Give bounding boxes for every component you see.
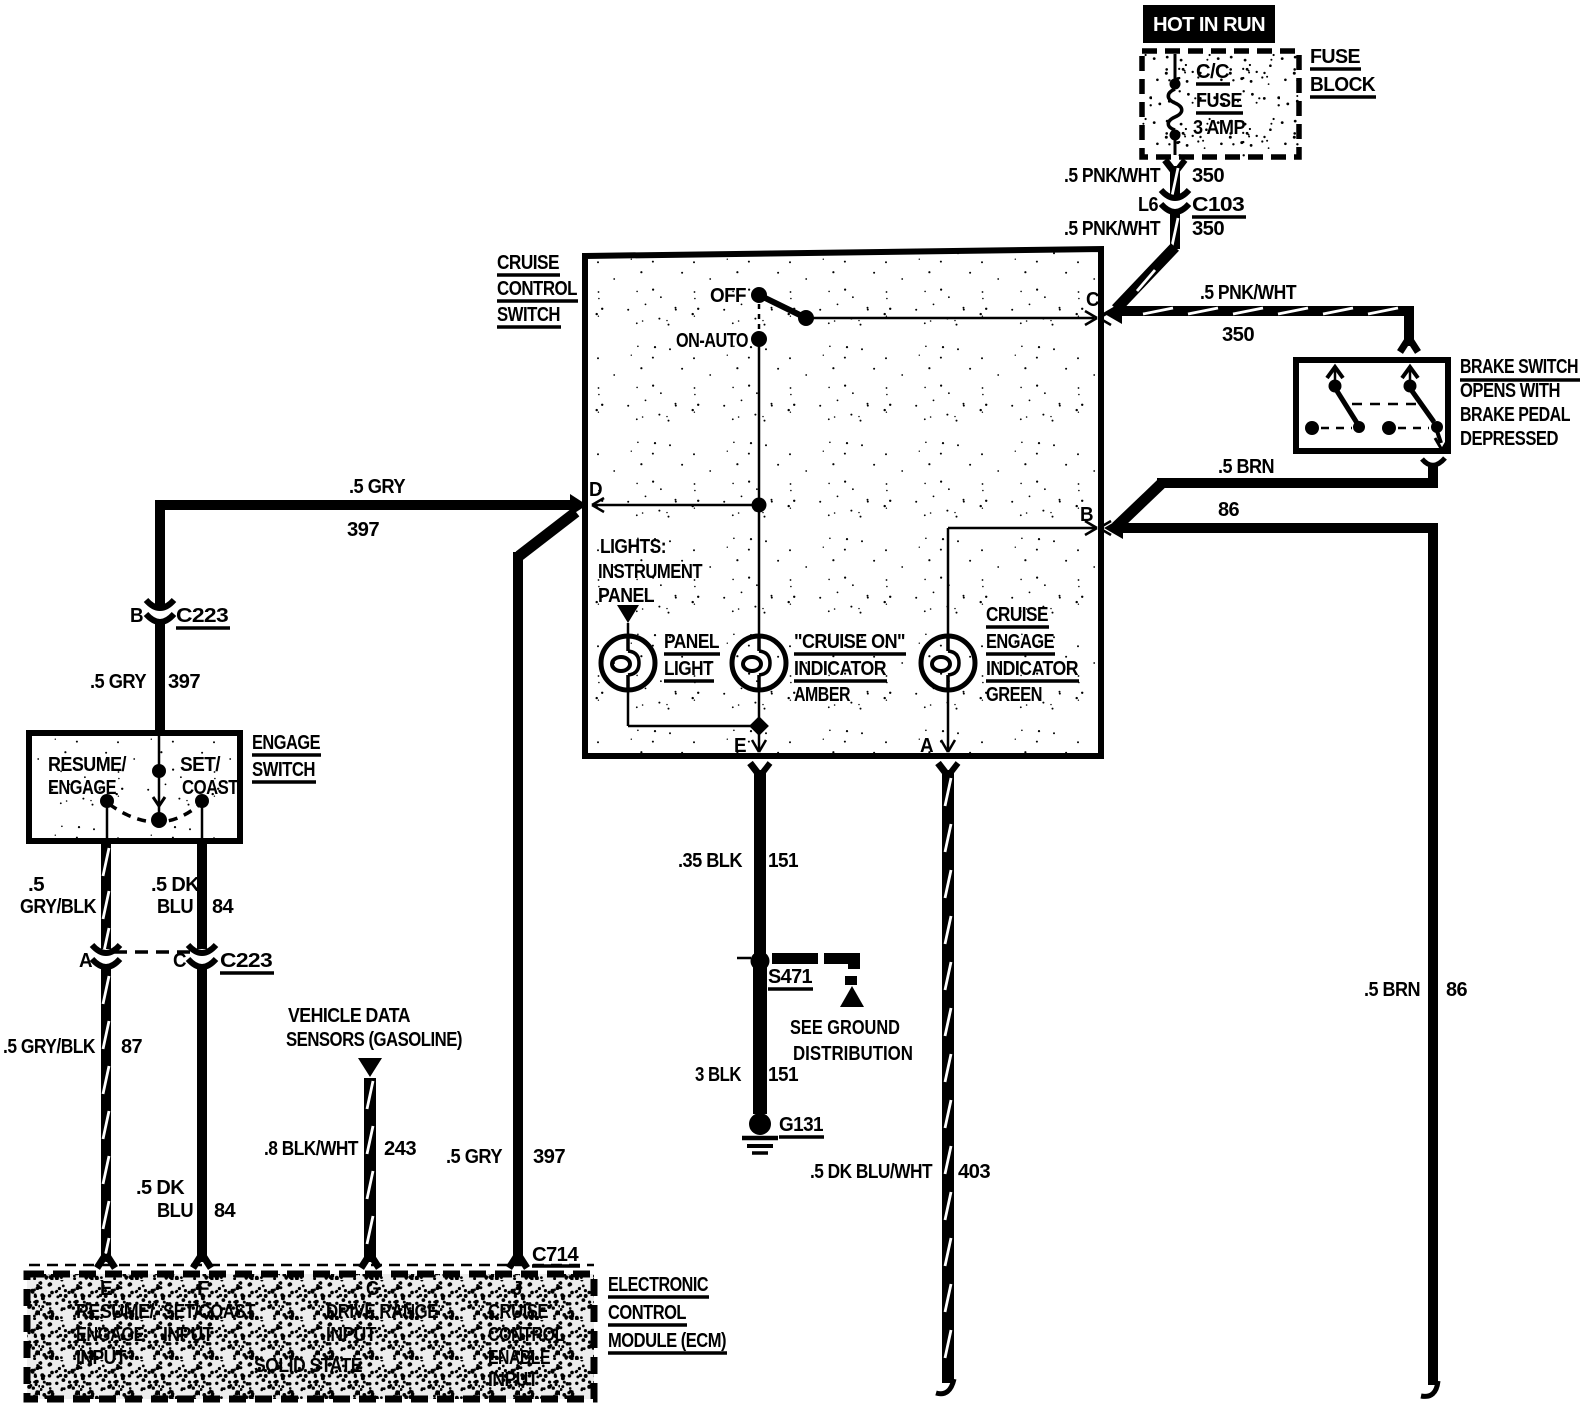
svg-text:PANEL: PANEL — [598, 585, 654, 607]
wire engage lamp to terminal A — [941, 690, 955, 752]
wire .5 DK BLU 84 C223 to ECM F — [193, 967, 211, 1268]
connector C103 terminal L6 — [1161, 190, 1189, 212]
label .5 DK BLU 84 (lower) — [136, 1177, 236, 1222]
wire ON-AUTO down to lamp — [758, 339, 761, 636]
svg-text:86: 86 — [1218, 499, 1239, 521]
svg-text:SET/: SET/ — [180, 754, 221, 776]
svg-text:ENGAGE: ENGAGE — [252, 732, 320, 754]
svg-text:BLOCK: BLOCK — [1310, 74, 1376, 96]
svg-text:D: D — [589, 479, 602, 501]
wire .8 BLK/WHT 243 to ECM G — [361, 1078, 379, 1268]
engage switch throw arc (dashed) — [109, 804, 200, 822]
feed triangle for panel light — [617, 605, 639, 636]
svg-text:350: 350 — [1192, 165, 1224, 187]
label 3 BLK 151 — [695, 1064, 798, 1086]
wire lever to terminal C — [806, 311, 1097, 325]
svg-text:RESUME/: RESUME/ — [48, 754, 127, 776]
svg-text:.8 BLK/WHT: .8 BLK/WHT — [264, 1138, 358, 1160]
label C C223 — [173, 950, 274, 973]
wire .5 BRN 86 brake switch to B and down right side — [1116, 458, 1445, 1396]
label C — [1086, 289, 1099, 311]
label B C223 — [130, 605, 230, 628]
terminal B arrow into cruise switch — [1099, 517, 1123, 539]
svg-text:C223: C223 — [176, 605, 229, 627]
terminal C arrow into cruise switch — [1099, 302, 1122, 325]
svg-text:151: 151 — [768, 850, 798, 872]
wire .5 PNK/WHT 350 C103 to cruise switch C — [1116, 213, 1180, 309]
svg-text:DISTRIBUTION: DISTRIBUTION — [793, 1043, 913, 1065]
engage switch common lever — [151, 736, 167, 828]
svg-text:C223: C223 — [220, 950, 273, 972]
wire .5 GRY fork at ECM J — [509, 1254, 527, 1268]
brake switch gang link (dashed) — [1352, 403, 1420, 406]
svg-text:OPENS WITH: OPENS WITH — [1460, 380, 1560, 402]
svg-text:C714: C714 — [532, 1244, 579, 1266]
wire .5 GRY/BLK 87 C223 to ECM E — [97, 967, 115, 1268]
node junction E — [749, 716, 769, 736]
svg-text:F: F — [197, 1278, 209, 1300]
engage switch contact SET/COAST — [195, 794, 209, 841]
svg-text:VEHICLE DATA: VEHICLE DATA — [288, 1005, 410, 1027]
ECM box — [27, 1274, 594, 1399]
svg-text:.5 PNK/WHT: .5 PNK/WHT — [1064, 165, 1160, 187]
svg-text:350: 350 — [1222, 324, 1254, 346]
svg-text:BLU: BLU — [157, 1200, 193, 1222]
svg-text:CRUISE: CRUISE — [497, 252, 559, 274]
svg-text:84: 84 — [212, 896, 234, 918]
label .5 PNK/WHT 350 (above C103) — [1064, 165, 1224, 187]
feed triangle vehicle data sensors — [358, 1058, 382, 1077]
wire .5 GRY/BLK engage switch to C223 A — [101, 841, 111, 956]
svg-text:ELECTRONIC: ELECTRONIC — [608, 1274, 708, 1296]
svg-text:87: 87 — [121, 1036, 142, 1058]
svg-text:86: 86 — [1446, 979, 1467, 1001]
wire panel lamp bottom to junction — [628, 690, 759, 726]
cruise control switch box — [585, 249, 1101, 756]
svg-text:397: 397 — [168, 671, 200, 693]
svg-text:CONTROL: CONTROL — [488, 1324, 564, 1346]
svg-text:G: G — [366, 1278, 379, 1300]
label .5 GRY/BLK (upper) — [20, 874, 97, 918]
brake switch contact 1 — [1305, 367, 1365, 435]
label A — [920, 735, 933, 757]
svg-text:E: E — [100, 1278, 112, 1300]
svg-text:3 AMP: 3 AMP — [1193, 117, 1245, 139]
svg-text:.5 DK BLU/WHT: .5 DK BLU/WHT — [810, 1161, 932, 1183]
lamp panel light — [601, 636, 655, 690]
svg-text:ENGAGE: ENGAGE — [48, 777, 116, 799]
svg-text:LIGHTS:: LIGHTS: — [600, 536, 666, 558]
label 350 (brake feed) — [1222, 324, 1254, 346]
svg-text:FUSE: FUSE — [1310, 46, 1360, 68]
svg-text:350: 350 — [1192, 218, 1224, 240]
svg-text:84: 84 — [214, 1200, 236, 1222]
svg-text:MODULE (ECM): MODULE (ECM) — [608, 1330, 726, 1352]
svg-text:E: E — [734, 735, 746, 757]
label D — [589, 479, 602, 501]
svg-text:S471: S471 — [768, 966, 812, 988]
svg-text:INDICATOR: INDICATOR — [986, 658, 1079, 680]
label G131 — [779, 1114, 824, 1137]
svg-text:FUSE: FUSE — [1196, 90, 1242, 112]
label L6 C103 — [1138, 194, 1246, 217]
label "CRUISE ON" INDICATOR AMBER — [794, 631, 906, 706]
wire .5 PNK/WHT 350 C to brake switch — [1114, 306, 1418, 352]
svg-text:397: 397 — [533, 1146, 565, 1168]
svg-text:ENGAGE: ENGAGE — [986, 631, 1054, 653]
label C714 — [532, 1244, 580, 1266]
svg-text:HOT IN RUN: HOT IN RUN — [1153, 14, 1265, 36]
label .5 BRN (upper) — [1218, 456, 1274, 478]
svg-text:OFF: OFF — [710, 285, 746, 307]
svg-text:ENABLE: ENABLE — [488, 1347, 550, 1369]
svg-text:.5 GRY: .5 GRY — [90, 671, 147, 693]
label ENGAGE SWITCH — [252, 732, 321, 782]
svg-text:ENGAGE: ENGAGE — [76, 1324, 144, 1346]
svg-text:.5 DK: .5 DK — [151, 874, 200, 896]
svg-text:.35 BLK: .35 BLK — [678, 850, 743, 872]
svg-text:L6: L6 — [1138, 194, 1158, 216]
label CRUISE ENGAGE INDICATOR GREEN — [986, 604, 1079, 706]
svg-text:397: 397 — [347, 519, 379, 541]
wire .5 GRY 397 to terminal D and down to ECM J — [155, 494, 587, 1266]
engage switch contact RESUME/ENGAGE — [100, 794, 114, 841]
ground G131 — [742, 1113, 778, 1153]
lamp cruise engage indicator — [921, 636, 975, 690]
label ELECTRONIC CONTROL MODULE (ECM) — [608, 1274, 727, 1353]
fuse block box — [1142, 51, 1299, 157]
wire terminal B to engage indicator lamp — [948, 521, 1097, 636]
wire .5 PNK/WHT 350 fuse to C103 — [1165, 160, 1185, 196]
label FUSE BLOCK — [1310, 46, 1376, 97]
svg-text:.5 PNK/WHT: .5 PNK/WHT — [1064, 218, 1160, 240]
svg-text:DEPRESSED: DEPRESSED — [1460, 428, 1558, 450]
svg-text:INDICATOR: INDICATOR — [794, 658, 887, 680]
label PANEL LIGHT — [664, 631, 720, 681]
svg-text:SET/COAST: SET/COAST — [163, 1301, 255, 1323]
brake switch box — [1296, 360, 1448, 451]
brake switch contact 2 — [1382, 367, 1443, 435]
svg-text:BLU: BLU — [157, 896, 193, 918]
label ON-AUTO — [676, 330, 748, 352]
svg-text:C: C — [173, 950, 186, 972]
brake switch output stub — [1435, 431, 1449, 450]
svg-text:RESUME/: RESUME/ — [76, 1301, 155, 1323]
switch lever OFF / ON-AUTO — [751, 287, 814, 347]
svg-text:LIGHT: LIGHT — [664, 658, 713, 680]
svg-text:SOLID STATE: SOLID STATE — [254, 1355, 362, 1377]
svg-text:DRIVE RANGE: DRIVE RANGE — [326, 1301, 438, 1323]
svg-text:ON-AUTO: ON-AUTO — [676, 330, 748, 352]
svg-text:CONTROL: CONTROL — [608, 1302, 686, 1324]
label A — [79, 950, 92, 972]
svg-text:403: 403 — [958, 1161, 990, 1183]
svg-text:B: B — [130, 605, 143, 627]
svg-text:PANEL: PANEL — [664, 631, 719, 653]
svg-text:"CRUISE ON": "CRUISE ON" — [794, 631, 905, 653]
label B — [1080, 504, 1093, 526]
svg-text:BRAKE PEDAL: BRAKE PEDAL — [1460, 404, 1570, 426]
connector C223 terminal C — [188, 945, 216, 967]
label .5 DK BLU/WHT 403 — [810, 1161, 990, 1183]
label S471 — [768, 966, 813, 989]
svg-text:C: C — [1086, 289, 1099, 311]
label .5 PNK/WHT (brake feed) — [1200, 282, 1296, 304]
label .8 BLK/WHT 243 — [264, 1138, 416, 1160]
svg-text:INPUT: INPUT — [76, 1347, 126, 1369]
svg-text:A: A — [920, 735, 933, 757]
svg-text:CRUISE: CRUISE — [986, 604, 1048, 626]
svg-text:3 BLK: 3 BLK — [695, 1064, 742, 1086]
label 397 (top) — [347, 519, 379, 541]
label C/C FUSE 3 AMP — [1193, 61, 1245, 139]
label SEE GROUND DISTRIBUTION — [790, 1017, 913, 1065]
svg-text:C103: C103 — [1192, 194, 1245, 216]
label BRAKE SWITCH OPENS WITH BRAKE PEDAL DEPRESSED — [1460, 356, 1580, 450]
label 86 (upper) — [1218, 499, 1239, 521]
label .5 PNK/WHT 350 (below C103) — [1064, 218, 1224, 240]
node junction D branch — [752, 498, 767, 513]
svg-text:INPUT: INPUT — [163, 1324, 213, 1346]
label CRUISE CONTROL SWITCH — [497, 252, 578, 327]
svg-text:.5 PNK/WHT: .5 PNK/WHT — [1200, 282, 1296, 304]
svg-text:INPUT: INPUT — [488, 1369, 538, 1391]
splice S471 — [737, 952, 770, 971]
wire .5 DK BLU 84 engage switch to C223 C — [197, 841, 207, 949]
label LIGHTS: INSTRUMENT PANEL — [598, 536, 702, 607]
wire junction to terminal D — [592, 498, 759, 512]
svg-text:243: 243 — [384, 1138, 416, 1160]
label SOLID STATE — [254, 1355, 362, 1377]
svg-text:.5 BRN: .5 BRN — [1364, 979, 1420, 1001]
label .5 BRN 86 (lower right) — [1364, 979, 1467, 1001]
lamp cruise on indicator — [732, 636, 786, 690]
wire 3 BLK 151 S471 to G131 — [753, 967, 767, 1114]
svg-text:BRAKE SWITCH: BRAKE SWITCH — [1460, 356, 1578, 378]
dashed branch to ground distribution — [772, 953, 864, 1007]
wire .35 BLK 151 terminal E to S471 — [750, 763, 770, 958]
svg-text:G131: G131 — [779, 1114, 823, 1136]
svg-text:AMBER: AMBER — [794, 684, 851, 706]
connector C223 terminal B — [146, 600, 174, 622]
wire cruise-on lamp to terminal E — [752, 690, 766, 752]
engage switch box — [29, 733, 240, 841]
svg-text:.5 GRY/BLK: .5 GRY/BLK — [3, 1036, 96, 1058]
label .5 GRY 397 (ECM J feed) — [446, 1146, 565, 1168]
connector C714 dashed line — [29, 1264, 594, 1267]
svg-text:.5 GRY: .5 GRY — [446, 1146, 503, 1168]
connector C223 dashed link — [114, 950, 192, 954]
svg-text:CONTROL: CONTROL — [497, 278, 577, 300]
svg-text:J: J — [512, 1278, 522, 1300]
svg-text:INSTRUMENT: INSTRUMENT — [598, 561, 702, 583]
svg-text:GREEN: GREEN — [986, 684, 1042, 706]
svg-text:COAST: COAST — [182, 777, 238, 799]
label SET/COAST — [180, 754, 238, 799]
label .5 GRY/BLK 87 — [3, 1036, 142, 1058]
svg-text:GRY/BLK: GRY/BLK — [20, 896, 97, 918]
label terminal E RESUME/ENGAGE INPUT — [76, 1278, 155, 1369]
svg-text:.5 BRN: .5 BRN — [1218, 456, 1274, 478]
svg-text:.5 GRY: .5 GRY — [349, 476, 406, 498]
label terminal F SET/COAST INPUT — [163, 1278, 255, 1346]
svg-text:SWITCH: SWITCH — [252, 759, 315, 781]
label terminal G DRIVE RANGE INPUT — [326, 1278, 438, 1346]
label OFF — [710, 285, 746, 307]
svg-text:A: A — [79, 950, 92, 972]
label E — [734, 735, 746, 757]
svg-text:.5: .5 — [28, 874, 44, 896]
power label HOT IN RUN — [1143, 5, 1275, 43]
fuse F1 C/C FUSE 3 AMP — [1168, 54, 1182, 155]
wire .5 GRY 397 C223 to engage switch — [155, 622, 165, 735]
svg-text:C/C: C/C — [1196, 61, 1229, 83]
svg-text:SWITCH: SWITCH — [497, 304, 560, 326]
svg-text:.5 DK: .5 DK — [136, 1177, 185, 1199]
wire .5 DK BLU/WHT 403 terminal A down — [936, 763, 958, 1394]
svg-text:CRUISE: CRUISE — [488, 1301, 548, 1323]
label .5 GRY (top) — [349, 476, 406, 498]
svg-text:151: 151 — [768, 1064, 798, 1086]
label .5 GRY 397 (left) — [90, 671, 200, 693]
label RESUME/ENGAGE — [48, 754, 127, 799]
svg-text:INPUT: INPUT — [326, 1324, 376, 1346]
label terminal J CRUISE CONTROL ENABLE INPUT — [488, 1278, 564, 1391]
svg-text:SENSORS (GASOLINE): SENSORS (GASOLINE) — [286, 1029, 462, 1051]
label VEHICLE DATA SENSORS (GASOLINE) — [286, 1005, 462, 1051]
label .35 BLK 151 — [678, 850, 798, 872]
svg-text:SEE GROUND: SEE GROUND — [790, 1017, 900, 1039]
label .5 DK BLU 84 (upper) — [151, 874, 234, 918]
connector C223 terminal A — [92, 945, 120, 967]
